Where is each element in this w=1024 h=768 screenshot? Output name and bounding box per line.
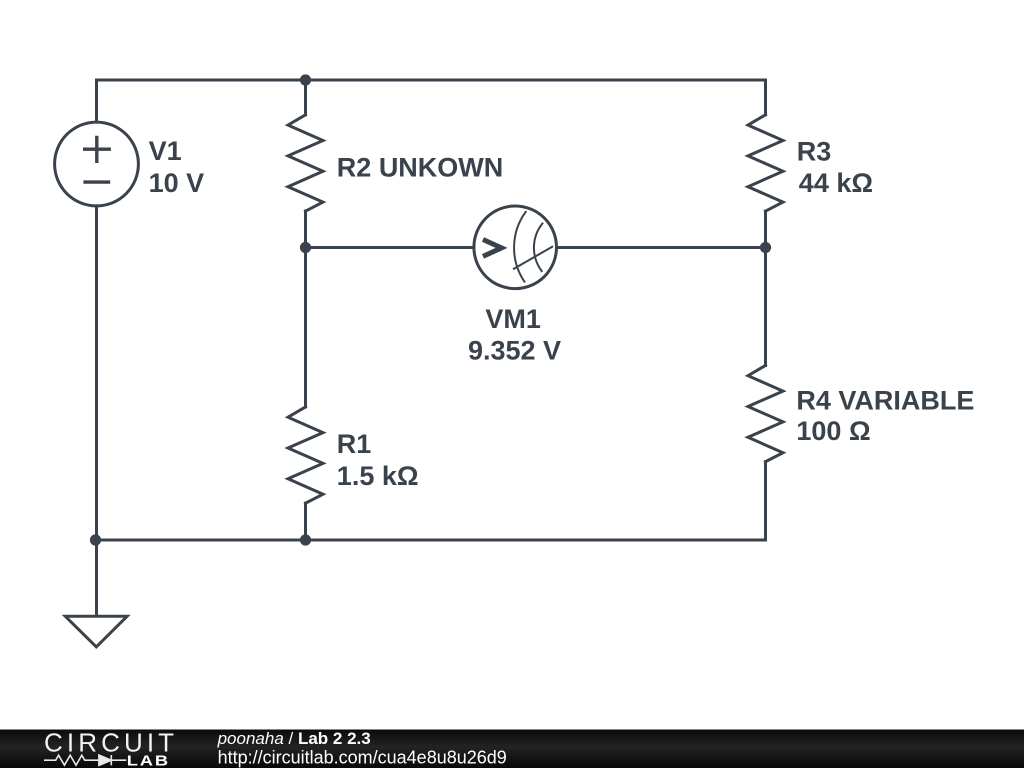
junction node R1 bottom [300,534,311,545]
V1 minus sign [83,180,110,183]
svg-text:V1: V1 [149,136,182,166]
svg-text:R3: R3 [797,136,832,166]
svg-text:9.352 V: 9.352 V [468,336,561,366]
voltmeter VM1 circle [474,206,557,289]
junction node R2 top [300,74,311,85]
voltmeter arc large [514,212,526,282]
wire bottom horizontal [96,462,766,540]
resistor R3 [748,115,783,211]
ground [65,616,127,647]
wire top horizontal [97,80,766,122]
svg-text:LAB: LAB [127,752,170,768]
svg-text:100 Ω: 100 Ω [796,416,870,446]
svg-text:R2 UNKOWN: R2 UNKOWN [337,153,504,183]
svg-text:1.5 kΩ: 1.5 kΩ [337,461,419,491]
svg-text:44 kΩ: 44 kΩ [799,168,873,198]
voltage source V1 circle [55,122,139,206]
wire voltmeter left [306,246,475,249]
wire left vertical below V1 [95,206,98,616]
voltmeter arc small [534,224,542,272]
resistor R1 [288,407,323,503]
junction node R2 bottom [300,242,311,253]
svg-text:http://circuitlab.com/cua4e8u8: http://circuitlab.com/cua4e8u8u26d9 [218,747,507,767]
wire voltmeter right [557,246,766,249]
svg-text:R4 VARIABLE: R4 VARIABLE [796,386,974,416]
voltmeter needle line [514,247,552,269]
voltmeter arrow [483,240,502,257]
wire R3 bottom to R4 top [764,211,767,365]
svg-text:VM1: VM1 [485,304,541,334]
V1 plus sign [83,136,111,163]
svg-text:10 V: 10 V [149,168,205,198]
wire R2 top stub [304,80,307,115]
junction node R3 bottom [760,242,771,253]
CircuitLab logo squiggle [44,755,126,765]
wire R1 bottom stub [304,503,307,540]
resistor R2 [288,115,323,211]
svg-text:R1: R1 [337,429,372,459]
resistor R4 [748,365,783,461]
junction node bottom left [90,534,101,545]
svg-text:poonaha / Lab 2 2.3: poonaha / Lab 2 2.3 [217,729,371,748]
wire R2 bottom to R1 top [304,211,307,407]
